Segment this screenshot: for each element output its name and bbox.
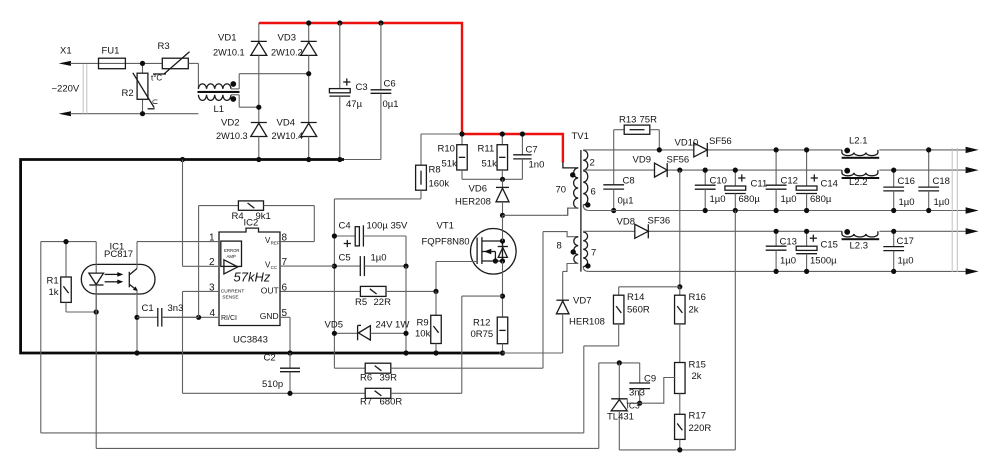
svg-text:UC3843: UC3843 <box>233 335 268 346</box>
svg-text:680R: 680R <box>380 397 403 408</box>
resistor R13 75R <box>614 115 660 185</box>
svg-text:C18: C18 <box>933 176 950 187</box>
capacitor C5 1u0 <box>334 253 406 277</box>
svg-text:SF36: SF36 <box>648 216 671 227</box>
svg-text:L1: L1 <box>214 104 225 115</box>
svg-text:560R: 560R <box>627 305 650 316</box>
svg-text:9k1: 9k1 <box>256 211 271 222</box>
svg-text:TV1: TV1 <box>572 131 589 142</box>
wire VD1 anode column <box>258 55 260 122</box>
svg-text:C6: C6 <box>384 78 396 89</box>
wire opto top rail <box>41 241 96 243</box>
resistor R11 51k <box>478 134 508 179</box>
svg-text:220R: 220R <box>689 423 712 434</box>
wire ground right leg <box>405 266 407 353</box>
svg-text:R13: R13 <box>619 115 636 126</box>
wire output rail 1 <box>583 149 966 151</box>
wire gate lead <box>436 262 477 292</box>
svg-text:C9: C9 <box>644 374 656 385</box>
capacitor C12 1u0 <box>766 147 798 213</box>
diode VD6 HER208 <box>455 179 509 215</box>
transformer secondary winding 2 <box>583 150 595 170</box>
svg-text:1500µ: 1500µ <box>810 256 837 267</box>
svg-text:U: U <box>151 99 160 104</box>
node R9 ground <box>433 350 438 355</box>
svg-text:C11: C11 <box>751 179 768 190</box>
svg-text:39R: 39R <box>380 373 398 384</box>
svg-text:C1: C1 <box>142 303 154 314</box>
zener VD5 24V 1W <box>325 320 410 341</box>
resistor R6 39R aux feed <box>334 232 578 384</box>
svg-text:C12: C12 <box>781 176 798 187</box>
connector X1 boundary lines <box>83 64 87 114</box>
diode VD4 2W10.4 <box>272 118 317 160</box>
wire R3 to L1 <box>188 63 198 89</box>
svg-text:510p: 510p <box>262 379 283 390</box>
svg-text:75R: 75R <box>640 115 658 126</box>
node source sense junction <box>500 294 505 299</box>
svg-text:C16: C16 <box>898 176 915 187</box>
svg-text:160k: 160k <box>429 179 450 190</box>
resistor R16 2k <box>675 287 706 363</box>
node C2 bottom junction <box>287 391 292 396</box>
capacitor C8 0u1 <box>603 176 634 211</box>
wire output rail 4 <box>583 230 966 232</box>
transformer TV1 core <box>572 131 589 272</box>
capacitor C15 1500u <box>796 229 838 274</box>
thermistor R3 <box>151 41 190 83</box>
svg-text:R8: R8 <box>429 165 441 176</box>
capacitor C4 100u 35V <box>334 221 408 267</box>
node divider top junction <box>677 284 682 289</box>
wire red +310V rail <box>259 23 563 162</box>
capacitor C2 510p <box>262 353 300 394</box>
resistor R5 22R gate <box>280 286 436 308</box>
svg-text:3n3: 3n3 <box>168 303 184 314</box>
svg-text:R4: R4 <box>232 211 244 222</box>
resistor R12 0R75 sense <box>471 317 508 353</box>
svg-text:8: 8 <box>557 241 562 252</box>
fuse FU1 <box>99 46 126 69</box>
svg-text:IC3: IC3 <box>627 401 641 411</box>
wire output rail 5 <box>589 270 966 272</box>
resistor R10 51k <box>438 134 468 179</box>
node VD5 left <box>332 331 337 336</box>
wire drain <box>502 215 504 241</box>
node drain-primary junction <box>500 213 505 218</box>
svg-text:VD7: VD7 <box>573 296 591 307</box>
resistor R17 220R <box>675 411 712 450</box>
wire divider top link <box>619 286 680 288</box>
svg-text:6: 6 <box>591 187 596 198</box>
node R12 ground <box>500 350 505 355</box>
svg-text:22R: 22R <box>374 297 392 308</box>
wire VCC left rail <box>333 236 335 367</box>
svg-text:VD4: VD4 <box>277 118 295 129</box>
svg-text:VD2: VD2 <box>221 118 239 129</box>
wire LED cathode feedback line <box>96 285 599 448</box>
svg-text:2W10.3: 2W10.3 <box>216 131 248 141</box>
svg-text:C2: C2 <box>264 353 276 364</box>
node R1 bottom LED cathode <box>94 309 99 314</box>
node B: R2 bottom junction <box>140 111 145 116</box>
svg-text:2k: 2k <box>689 305 699 316</box>
connector output boundary lines <box>952 148 957 272</box>
svg-text:R17: R17 <box>689 411 706 422</box>
svg-text:R9: R9 <box>417 318 429 329</box>
svg-text:R16: R16 <box>689 292 706 303</box>
transformer secondary winding 6 <box>583 171 596 211</box>
svg-text:2W10.2: 2W10.2 <box>271 48 303 58</box>
node TL431 cathode junction <box>617 360 622 365</box>
svg-text:C3: C3 <box>356 82 368 93</box>
node snubber-VD6 junction <box>500 177 505 182</box>
diode VD1 2W10.1 <box>213 23 267 58</box>
svg-text:VD9: VD9 <box>633 155 651 166</box>
wire L1 to bridge AC node 2 <box>239 106 259 108</box>
svg-text:AMP: AMP <box>227 254 236 259</box>
svg-text:~220V: ~220V <box>52 84 80 95</box>
transformer aux winding 8 <box>557 237 579 272</box>
transistor VT1 FQPF8N80 <box>422 221 517 275</box>
node R17 ground junction <box>677 447 682 452</box>
choke L1 <box>198 74 240 115</box>
svg-text:C8: C8 <box>623 176 635 187</box>
svg-text:R14: R14 <box>627 292 644 303</box>
svg-text:VD1: VD1 <box>218 33 236 44</box>
node gate-R5-R9 junction <box>433 289 438 294</box>
node pin4-R4 junction <box>196 315 201 320</box>
svg-text:SF56: SF56 <box>667 155 690 166</box>
wire drain node to primary winding <box>503 208 579 215</box>
svg-text:GND: GND <box>260 311 279 321</box>
svg-text:R10: R10 <box>438 144 455 155</box>
wire secondary ground return <box>619 211 735 450</box>
svg-text:1µ0: 1µ0 <box>780 256 796 267</box>
svg-text:70: 70 <box>556 185 567 196</box>
svg-text:R7: R7 <box>360 397 372 408</box>
wire current sense branch <box>462 296 503 393</box>
wire pin4 rtct <box>162 316 219 318</box>
inductor L2.3 <box>842 229 880 252</box>
svg-text:VD8: VD8 <box>617 217 635 228</box>
svg-text:C10: C10 <box>710 176 727 187</box>
capacitor C9 3n3 <box>629 363 656 403</box>
node emitter-C1 junction <box>134 315 139 320</box>
wire pin5 gnd <box>280 317 290 353</box>
svg-text:VT1: VT1 <box>437 221 454 232</box>
svg-text:2W10.1: 2W10.1 <box>213 48 245 58</box>
node emitter ground <box>134 350 139 355</box>
node R1 top <box>63 239 68 244</box>
wire pin3 current sense <box>183 291 220 393</box>
node R13 rail junction <box>657 147 662 152</box>
svg-text:0µ1: 0µ1 <box>383 99 399 110</box>
svg-text:680µ: 680µ <box>810 194 832 205</box>
svg-text:51k: 51k <box>442 159 458 170</box>
wire primary minus bus top <box>21 160 500 354</box>
wire L1 to bridge AC node 1 <box>239 73 309 75</box>
svg-text:1k: 1k <box>49 287 59 298</box>
svg-text:1µ0: 1µ0 <box>371 253 387 264</box>
op-amp IC3 TL431 <box>607 363 675 450</box>
output arrows <box>966 147 979 275</box>
svg-text:HER208: HER208 <box>455 197 491 208</box>
svg-text:C13: C13 <box>780 237 797 248</box>
svg-text:VD10: VD10 <box>675 138 699 149</box>
diode VD3 2W10.2 <box>271 23 317 58</box>
svg-text:VD3: VD3 <box>278 33 296 44</box>
capacitor C1 3n3 <box>137 303 199 327</box>
svg-text:VD5: VD5 <box>325 320 343 331</box>
node C4 left <box>332 233 337 238</box>
svg-text:CURRENT: CURRENT <box>221 288 245 294</box>
svg-text:1µ0: 1µ0 <box>899 197 915 208</box>
capacitor C16 1u0 <box>883 168 915 214</box>
svg-text:57kHz: 57kHz <box>234 270 271 285</box>
svg-text:HER108: HER108 <box>569 317 605 328</box>
svg-text:X1: X1 <box>60 46 72 57</box>
svg-text:R6: R6 <box>360 373 372 384</box>
svg-text:SENSE: SENSE <box>222 294 238 300</box>
svg-text:CC: CC <box>271 265 278 270</box>
svg-text:FU1: FU1 <box>102 46 120 57</box>
svg-text:10k: 10k <box>415 329 431 340</box>
wire output rail 2 <box>583 169 966 171</box>
resistor R15 2k <box>675 360 706 415</box>
resistor R8 160k startup <box>416 134 462 199</box>
op-amp IC2 UC3843 body <box>209 218 288 346</box>
node pin5 ground junction <box>287 350 292 355</box>
svg-text:REF: REF <box>271 241 280 246</box>
svg-text:RI/CI: RI/CI <box>221 315 237 322</box>
svg-text:C7: C7 <box>526 145 538 156</box>
svg-text:1µ0: 1µ0 <box>710 194 726 205</box>
capacitor C3 47u <box>329 23 367 160</box>
node C5 left VCC pin7 <box>332 264 337 269</box>
transformer primary winding 70 <box>556 168 579 215</box>
wire pin7 vcc <box>280 265 334 267</box>
svg-text:680µ: 680µ <box>739 194 761 205</box>
svg-text:2k: 2k <box>692 371 702 382</box>
svg-text:PC817: PC817 <box>104 249 133 260</box>
svg-text:R1: R1 <box>47 276 59 287</box>
svg-text:3n3: 3n3 <box>629 388 645 399</box>
node C5-ground junction <box>403 350 408 355</box>
capacitor C7 1n0 <box>513 134 544 179</box>
svg-text:0R75: 0R75 <box>471 329 494 340</box>
svg-text:L2.1: L2.1 <box>849 136 868 147</box>
svg-text:1n0: 1n0 <box>529 160 545 171</box>
diode VD8 SF36 <box>617 216 671 239</box>
svg-text:51k: 51k <box>482 159 498 170</box>
wire source to R12 <box>502 261 504 317</box>
node C9 reference junction <box>637 401 642 406</box>
varistor R2 <box>122 63 160 113</box>
svg-text:FQPF8N80: FQPF8N80 <box>422 237 470 248</box>
node VD3-VD4 junction <box>306 71 311 76</box>
capacitor C6 0u1 <box>371 23 399 160</box>
capacitor C14 680u <box>796 147 838 213</box>
resistor R4 9k1 <box>199 201 315 317</box>
wire LED anode feedback line <box>41 242 619 433</box>
capacitor C10 1u0 <box>695 168 727 214</box>
wire R8 to VCC rail <box>334 199 421 236</box>
svg-text:TL431: TL431 <box>607 412 634 423</box>
resistor R1 1k <box>47 242 97 312</box>
resistor R14 560R <box>613 287 649 346</box>
diode VD2 2W10.3 <box>216 118 267 160</box>
node VD9 output junction <box>677 168 682 173</box>
inductor L2.2 <box>842 168 880 188</box>
resistor R9 10k <box>415 291 441 353</box>
capacitor C11 680u <box>725 168 767 214</box>
capacitor C13 1u0 <box>766 229 797 274</box>
node C8 ground <box>611 208 616 213</box>
svg-text:2: 2 <box>590 158 595 169</box>
node C5 right <box>403 264 408 269</box>
svg-text:47µ: 47µ <box>346 99 363 110</box>
svg-text:C4: C4 <box>339 221 351 232</box>
wire common rail 3 <box>589 210 966 212</box>
svg-text:0µ1: 0µ1 <box>618 196 634 207</box>
node VD5 right <box>403 331 408 336</box>
svg-text:L2.2: L2.2 <box>849 177 868 188</box>
svg-text:VD6: VD6 <box>469 184 487 195</box>
transformer secondary winding 7 <box>583 232 596 271</box>
svg-text:7: 7 <box>591 248 596 259</box>
svg-text:1µ0: 1µ0 <box>781 194 797 205</box>
svg-text:1µ0: 1µ0 <box>898 256 914 267</box>
node A: fuse-R2 junction <box>140 61 145 66</box>
wire pin1 comp to opto collector <box>137 241 219 243</box>
svg-text:L2.3: L2.3 <box>850 241 869 252</box>
svg-text:C5: C5 <box>339 253 351 264</box>
node R11 top <box>500 131 505 136</box>
svg-text:R15: R15 <box>689 360 706 371</box>
wire VD3 anode column <box>308 55 310 122</box>
svg-text:SF56: SF56 <box>709 136 732 147</box>
svg-text:R12: R12 <box>473 318 490 329</box>
diode VD9 SF56 <box>633 155 690 178</box>
capacitor C18 1u0 <box>918 147 950 213</box>
wire VD9 node to divider <box>679 170 681 287</box>
svg-text:1µ0: 1µ0 <box>934 197 950 208</box>
svg-text:C17: C17 <box>897 236 914 247</box>
svg-text:R3: R3 <box>158 41 170 52</box>
capacitor C17 1u0 <box>883 229 914 274</box>
wire TL431 cathode rail <box>599 362 640 364</box>
node R10 top <box>459 131 464 136</box>
svg-text:24V 1W: 24V 1W <box>376 320 410 331</box>
wire red to primary <box>563 162 578 168</box>
svg-text:2W10.4: 2W10.4 <box>272 131 304 141</box>
diode VD7 HER108 aux rectifier <box>503 271 605 353</box>
wire snubber bottom rail <box>462 178 522 180</box>
node VD1-VD2 junction <box>256 105 261 110</box>
node red rail junctions <box>306 20 383 25</box>
svg-text:100µ 35V: 100µ 35V <box>367 221 409 232</box>
diode VD10 SF56 <box>675 136 732 157</box>
op-amp IC1 PC817 optocoupler <box>81 242 155 354</box>
svg-text:6: 6 <box>282 282 288 293</box>
svg-text:ERROR: ERROR <box>224 248 240 253</box>
node minus bus junctions <box>180 157 343 162</box>
wire pin2 vfb to ground bus <box>183 160 220 267</box>
connector X1 input arrows and wires <box>52 46 199 117</box>
svg-text:C14: C14 <box>821 179 838 190</box>
svg-text:t°C: t°C <box>151 74 162 83</box>
svg-text:R11: R11 <box>478 144 495 155</box>
inductor L2.1 <box>842 136 880 159</box>
svg-text:R5: R5 <box>355 297 367 308</box>
resistor R7 680R sense filter <box>183 388 462 407</box>
svg-text:C15: C15 <box>821 240 838 251</box>
node C7 top <box>520 131 525 136</box>
svg-text:OUT: OUT <box>261 286 279 296</box>
svg-text:R2: R2 <box>122 88 134 99</box>
